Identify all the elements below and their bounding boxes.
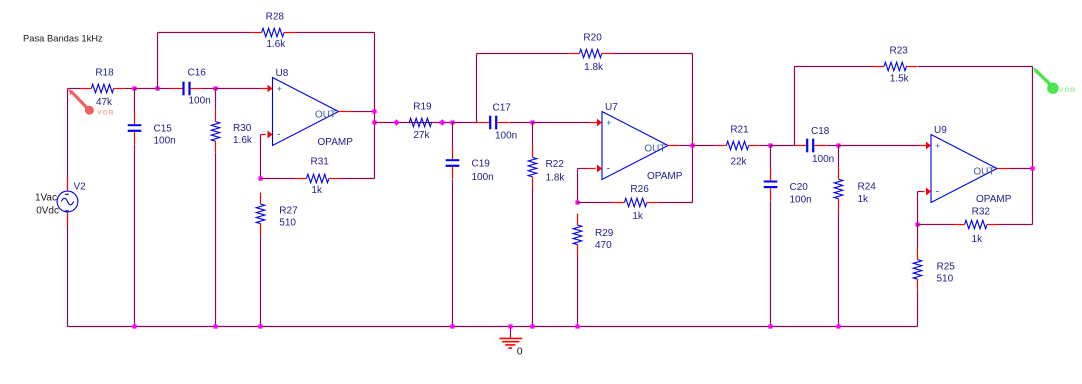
resistor R29 — [573, 214, 614, 256]
svg-text:1.5k: 1.5k — [890, 74, 910, 85]
pin U7 minus arrowhead — [597, 165, 602, 173]
pin U7 minus red lead — [586, 168, 596, 170]
svg-text:100n: 100n — [472, 172, 494, 183]
svg-text:1k: 1k — [972, 234, 984, 245]
node C20 on bottom rail — [768, 324, 772, 328]
node output3 junction — [1030, 166, 1034, 170]
svg-text:-: - — [277, 129, 281, 141]
wire R25 upper — [917, 225, 919, 249]
op-amp U9 — [926, 125, 1012, 205]
wire R32 right — [998, 224, 1032, 226]
ground 0 — [499, 327, 522, 358]
svg-text:1k: 1k — [632, 211, 644, 222]
resistor R22 — [528, 146, 565, 189]
svg-text:C19: C19 — [472, 159, 491, 170]
wire C18 to R24 node — [827, 145, 839, 147]
pin U8 output red stub — [339, 111, 353, 113]
resistor R19 — [409, 102, 432, 142]
wire C15 branch lower — [134, 145, 136, 327]
svg-text:27k: 27k — [413, 130, 430, 141]
svg-text:1k: 1k — [311, 185, 323, 196]
svg-text:100n: 100n — [495, 131, 517, 142]
wire R24 node to U9 plus pin — [839, 145, 920, 147]
svg-text:OPAMP: OPAMP — [647, 171, 683, 182]
node R22 on bottom rail — [530, 324, 534, 328]
capacitor C15 — [128, 112, 176, 147]
svg-text:-: - — [936, 186, 940, 198]
op-amp U7 — [597, 102, 683, 182]
node feedback R28 junction — [155, 86, 159, 90]
node R24 junction — [836, 143, 840, 147]
svg-text:OUT: OUT — [315, 110, 336, 121]
svg-text:1.8k: 1.8k — [584, 62, 604, 73]
node C19 junction — [450, 120, 454, 124]
wire feedback2 top left — [477, 53, 569, 55]
svg-text:R30: R30 — [233, 123, 252, 134]
pin U9 minus arrowhead — [926, 188, 931, 196]
svg-text:R20: R20 — [583, 33, 602, 44]
node C15 on bottom rail — [132, 324, 136, 328]
resistor R25 — [913, 248, 955, 291]
node C20 junction — [768, 143, 772, 147]
resistor R27 — [256, 193, 298, 236]
resistor R24 — [834, 168, 876, 211]
wire feedback1 top right — [295, 32, 374, 34]
svg-text:R31: R31 — [311, 157, 330, 168]
wire R30 upper — [215, 89, 217, 111]
wire feedback1 vertical — [157, 33, 159, 89]
svg-text:1.8k: 1.8k — [546, 172, 566, 183]
node C15 junction — [132, 86, 136, 90]
wire R22 lower — [532, 188, 534, 326]
capacitor C20 — [764, 168, 812, 206]
svg-text:C16: C16 — [188, 68, 207, 79]
svg-text:R22: R22 — [546, 159, 565, 170]
wire feedback node to C16 — [158, 88, 172, 90]
wire R32 left — [918, 224, 954, 226]
wire output2 to R21 — [693, 145, 716, 147]
node minus2 R26 junction — [575, 200, 579, 204]
svg-text:0Vdc: 0Vdc — [36, 206, 59, 217]
svg-text:1Vac: 1Vac — [35, 193, 57, 204]
resistor R20 — [568, 33, 613, 74]
wire R22 node to U7 plus pin — [533, 122, 591, 124]
wire R31 right — [340, 178, 375, 180]
capacitor C16 — [171, 68, 211, 107]
svg-text:C18: C18 — [811, 126, 830, 137]
pin U9 minus red lead — [922, 191, 925, 193]
node R30 on bottom rail — [213, 324, 217, 328]
capacitor C17 — [477, 103, 517, 142]
wire R30 node to U8 plus pin — [216, 88, 262, 90]
node output2 junction — [690, 143, 694, 147]
title text — [23, 33, 103, 44]
svg-text:1.6k: 1.6k — [233, 135, 253, 146]
svg-text:R27: R27 — [279, 206, 298, 217]
svg-text:R28: R28 — [266, 12, 285, 23]
svg-text:R24: R24 — [858, 182, 877, 193]
probe VDB green marker — [1033, 67, 1076, 94]
wire feedback1 top left — [158, 32, 251, 34]
svg-text:VDB: VDB — [97, 110, 114, 117]
svg-text:510: 510 — [937, 274, 954, 285]
svg-text:V2: V2 — [74, 182, 87, 193]
pin U9 output red stub — [997, 168, 1010, 170]
svg-text:+: + — [606, 118, 612, 129]
pin U9 plus red lead — [919, 145, 930, 147]
resistor R32 — [954, 207, 999, 246]
capacitor C19 — [446, 147, 494, 184]
node minus3 R32 junction — [915, 222, 919, 226]
wire R26 right — [658, 202, 693, 204]
svg-text:R23: R23 — [890, 46, 909, 57]
svg-text:OUT: OUT — [644, 144, 665, 155]
resistor R18 — [80, 68, 125, 109]
pin U7 output red stub — [668, 145, 681, 147]
svg-text:R29: R29 — [595, 228, 614, 239]
svg-text:VDB: VDB — [1059, 87, 1076, 94]
svg-text:R19: R19 — [413, 102, 432, 113]
wire U8 output to node — [352, 111, 375, 113]
wire feedback3 vertical left — [794, 67, 796, 146]
wire R30 lower — [215, 153, 217, 327]
svg-text:OPAMP: OPAMP — [318, 137, 354, 148]
svg-text:100n: 100n — [812, 154, 834, 165]
op-amp U8 — [268, 68, 354, 148]
wire C15 node to feedback node — [135, 88, 158, 90]
resistor R28 — [251, 12, 296, 51]
svg-text:U7: U7 — [605, 102, 618, 113]
svg-text:0: 0 — [517, 346, 523, 358]
node minus1 R31 junction — [258, 176, 262, 180]
wire output1 to R19 — [375, 122, 453, 124]
pin U8 minus arrowhead — [268, 131, 273, 139]
svg-text:C15: C15 — [154, 124, 173, 135]
wire C20 branch upper — [770, 146, 772, 169]
svg-text:R21: R21 — [730, 125, 749, 136]
wire R29 lower — [577, 256, 579, 326]
node R29 on bottom rail — [575, 324, 579, 328]
wire R31 left — [261, 178, 296, 180]
svg-text:100n: 100n — [189, 96, 211, 107]
wire feedback2 vertical left — [476, 54, 478, 123]
svg-text:R18: R18 — [95, 68, 114, 79]
resistor R30 — [211, 110, 253, 152]
wire C19 branch lower — [452, 180, 454, 327]
pin U8 minus red lead — [261, 134, 266, 136]
svg-text:100n: 100n — [154, 136, 176, 147]
wire feedback3 top right — [918, 66, 1032, 68]
svg-text:R32: R32 — [972, 207, 991, 218]
probe VDB red marker — [68, 89, 114, 117]
wire R21 to C20 node — [760, 145, 771, 147]
wire U7 minus horizontal — [578, 168, 587, 170]
wire C15 branch upper — [134, 89, 136, 112]
wire output1 vertical — [374, 33, 376, 179]
svg-text:47k: 47k — [96, 97, 113, 108]
svg-text:+: + — [277, 84, 283, 95]
wire minus2 vertical — [577, 169, 579, 203]
svg-text:100n: 100n — [790, 195, 812, 206]
svg-text:C20: C20 — [790, 182, 809, 193]
node output1 to stage2 junction — [372, 120, 376, 124]
svg-text:Pasa Bandas 1kHz: Pasa Bandas 1kHz — [23, 33, 103, 44]
voltage source V2 — [35, 178, 86, 226]
wire input to R18 — [68, 88, 81, 90]
svg-text:OPAMP: OPAMP — [976, 194, 1012, 205]
svg-text:U9: U9 — [934, 125, 947, 136]
svg-text:470: 470 — [595, 240, 612, 251]
node ground on bottom rail — [508, 324, 512, 328]
wire C16 to R30 node — [202, 88, 216, 90]
svg-text:1k: 1k — [858, 194, 870, 205]
svg-text:R26: R26 — [630, 184, 649, 195]
pin U7 plus red lead — [590, 122, 601, 124]
wire R26 left — [578, 202, 614, 204]
wire bottom rail — [68, 326, 918, 328]
resistor R23 — [873, 46, 918, 85]
wire feedback3 top left — [795, 66, 874, 68]
node R19 right pin junction — [439, 119, 446, 126]
wire U9 output to node — [1010, 168, 1033, 170]
svg-text:U8: U8 — [276, 68, 289, 79]
node R24 on bottom rail — [836, 324, 840, 328]
node R27 on bottom rail — [258, 324, 262, 328]
wire C19 node to C17 — [453, 122, 478, 124]
wire left rail top segment — [67, 89, 69, 178]
wire output2 vertical — [692, 54, 694, 203]
wire C20 branch lower — [770, 201, 772, 327]
wire R25 lower — [917, 291, 919, 327]
resistor R21 — [715, 125, 760, 168]
node C19 on bottom rail — [450, 324, 454, 328]
capacitor C18 — [794, 126, 834, 165]
wire minus3 vertical — [917, 192, 919, 225]
wire U7 output to node — [681, 145, 693, 147]
wire R24 lower — [838, 210, 840, 326]
svg-text:OUT: OUT — [973, 167, 994, 178]
wire feedback2 top right — [613, 53, 693, 55]
node R30 junction — [213, 86, 217, 90]
node R19 left pin junction — [393, 119, 400, 126]
wire R27 lower — [260, 235, 262, 326]
node output1 junction — [372, 109, 376, 113]
svg-text:+: + — [935, 141, 941, 152]
pin U8 plus red lead — [261, 88, 271, 90]
wire U9 minus horizontal — [918, 191, 923, 193]
wire C19 branch upper — [452, 123, 454, 148]
svg-text:C17: C17 — [493, 103, 512, 114]
wire C20 node to C18 — [771, 145, 795, 147]
svg-text:-: - — [607, 163, 611, 175]
wire R18 to C15 node — [125, 88, 135, 90]
wire left rail bottom segment — [67, 226, 69, 327]
svg-text:510: 510 — [279, 218, 296, 229]
wire C17 to R22 node — [510, 122, 533, 124]
wire output3 vertical — [1032, 67, 1034, 225]
resistor R31 — [295, 157, 340, 197]
svg-text:22k: 22k — [730, 157, 747, 168]
resistor R26 — [613, 184, 658, 222]
node R22 junction — [530, 120, 534, 124]
wire R24 upper — [838, 146, 840, 168]
svg-text:R25: R25 — [937, 262, 956, 273]
svg-text:1.6k: 1.6k — [266, 39, 286, 50]
wire minus1 vertical — [260, 135, 262, 179]
wire R22 upper — [532, 123, 534, 146]
